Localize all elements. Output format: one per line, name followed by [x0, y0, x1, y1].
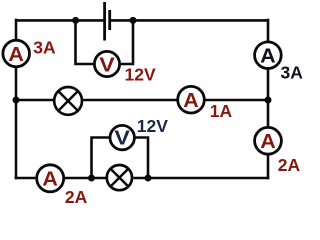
- wire bottom row right: [133, 177, 269, 180]
- wire left vertical lower: [15, 68, 18, 180]
- ammeter A5 bottom-left: [37, 165, 64, 192]
- wire middle row center: [83, 99, 176, 102]
- junction dot top-right of battery loop: [130, 17, 137, 24]
- wire right vertical middle: [267, 69, 270, 126]
- svg-text:A: A: [260, 131, 276, 153]
- wire right vertical lower: [267, 155, 270, 179]
- lamp L2 bottom: [107, 165, 132, 190]
- junction dot bottom-left of lamp L2: [88, 175, 95, 182]
- svg-text:V: V: [99, 54, 115, 76]
- battery B1 long plate: [103, 2, 106, 41]
- ammeter A1 top-left: [3, 40, 30, 67]
- wire bottom voltmeter loop left: [92, 138, 109, 179]
- ammeter A3 top-right: [255, 42, 282, 69]
- ammeter A4 right: [255, 127, 282, 154]
- svg-text:2A: 2A: [65, 187, 88, 205]
- wire bottom row center: [65, 177, 106, 180]
- svg-text:2A: 2A: [278, 155, 301, 175]
- svg-text:3A: 3A: [33, 38, 56, 58]
- wire middle row left: [16, 99, 53, 102]
- junction dot right middle node: [265, 97, 272, 104]
- lamp L1 middle: [54, 87, 82, 115]
- wire bottom voltmeter loop right: [135, 138, 148, 179]
- wire top voltmeter loop right: [121, 19, 133, 64]
- svg-text:A: A: [260, 46, 276, 68]
- svg-text:12V: 12V: [137, 116, 168, 136]
- ammeter A2 middle: [178, 86, 205, 113]
- svg-text:1A: 1A: [210, 101, 233, 121]
- wire top voltmeter loop left: [76, 19, 94, 64]
- svg-text:3A: 3A: [281, 62, 304, 82]
- junction dot bottom-right of lamp L2: [145, 175, 152, 182]
- battery B1 short plate: [108, 10, 111, 30]
- wire right vertical upper: [267, 19, 270, 42]
- junction dot top-left of battery loop: [72, 17, 79, 24]
- voltmeter V2 bottom: [110, 125, 134, 149]
- junction dot left middle node: [13, 97, 20, 104]
- svg-text:V: V: [114, 128, 130, 150]
- svg-text:A: A: [8, 44, 24, 66]
- wire left vertical upper: [15, 19, 18, 40]
- svg-text:12V: 12V: [125, 65, 156, 85]
- wire bottom row left: [15, 177, 36, 180]
- wire top-left horizontal: [16, 19, 104, 22]
- wire middle row right: [205, 99, 268, 102]
- svg-text:A: A: [183, 90, 199, 112]
- voltmeter V1 top: [94, 51, 119, 76]
- wire top-right horizontal: [111, 19, 269, 22]
- svg-text:A: A: [42, 169, 58, 191]
